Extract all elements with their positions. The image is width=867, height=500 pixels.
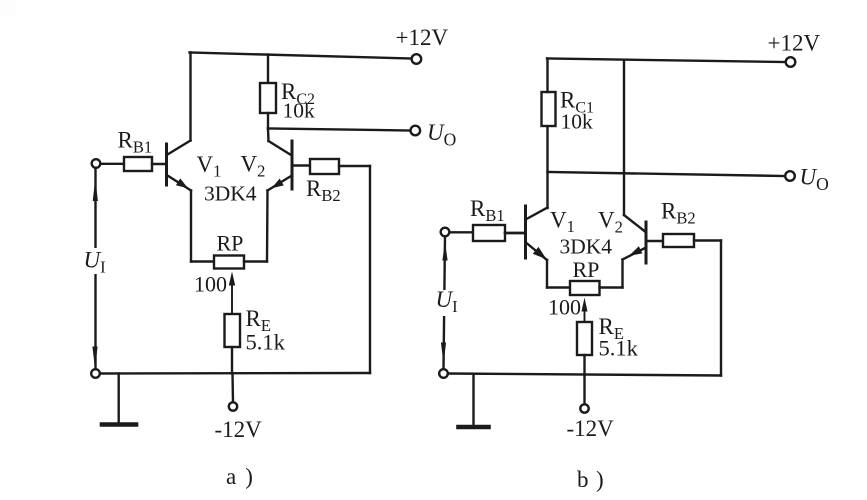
wire output node to V2 collector (a) <box>267 129 270 142</box>
terminal input + (a) <box>92 159 101 168</box>
ground (a) <box>102 422 136 427</box>
svg-text:3DK4: 3DK4 <box>204 181 257 205</box>
transistor V1 (a) <box>167 141 192 191</box>
wire output UO (b) <box>548 172 786 176</box>
svg-text:a ): a ) <box>226 464 253 489</box>
terminal input + (b) <box>441 228 450 237</box>
wire RE to bottom rail (a) <box>231 347 233 374</box>
wire V1 collector to RC1 (b) <box>546 126 548 208</box>
svg-text:3DK4: 3DK4 <box>560 235 613 259</box>
svg-text:RB2: RB2 <box>661 199 696 228</box>
resistor RB2 (a) <box>310 159 339 174</box>
wire V2 emitter down (b) <box>621 260 623 288</box>
wire UI input line (a) <box>94 168 96 369</box>
wire top rail +12V (b) <box>547 59 786 63</box>
wire right side down (b) <box>720 241 722 376</box>
wire input to RB1 (b) <box>450 231 474 233</box>
ground stub (b) <box>472 375 474 425</box>
potentiometer RP (a) <box>214 256 244 269</box>
svg-text:+12V: +12V <box>768 31 821 56</box>
svg-text:V2: V2 <box>241 152 266 181</box>
wire emitter to RP right (b) <box>600 286 623 288</box>
resistor RB1 (a) <box>124 157 152 171</box>
wire V2 emitter down (a) <box>266 191 269 262</box>
svg-text:-12V: -12V <box>567 416 615 441</box>
label UI (a) <box>82 248 110 277</box>
wire emitter to RP left (b) <box>547 286 570 288</box>
wire RB1 to V1 base (a) <box>152 163 166 165</box>
svg-text:UO: UO <box>427 120 456 150</box>
svg-text:RP: RP <box>573 257 600 282</box>
svg-text:RB2: RB2 <box>306 176 341 205</box>
ground (b) <box>459 425 489 430</box>
svg-text:b ): b ) <box>577 467 604 492</box>
terminal +12V (b) <box>786 57 796 67</box>
wire emitter to RP right (a) <box>244 260 267 262</box>
resistor RB2 (b) <box>663 234 694 247</box>
arrow down (a) <box>92 347 97 370</box>
wire bottom rail (a) <box>100 372 370 375</box>
arrow up (a) <box>93 179 98 202</box>
transistor V2 (b) <box>623 215 647 263</box>
transistor V1 (b) <box>526 206 548 260</box>
wire V2 base to RB2 (a) <box>294 164 311 166</box>
svg-text:5.1k: 5.1k <box>246 330 286 355</box>
svg-text:RB1: RB1 <box>118 128 153 157</box>
wire input to RB1 (a) <box>101 163 125 165</box>
resistor RC1 (b) <box>542 92 556 126</box>
svg-text:RB1: RB1 <box>470 196 505 225</box>
wire bottom rail (b) <box>448 374 721 376</box>
terminal -12V (a) <box>229 402 237 410</box>
RP wiper arrow (a) <box>229 272 235 315</box>
wire RE to bottom rail (b) <box>583 355 585 376</box>
svg-text:10k: 10k <box>561 110 594 134</box>
svg-text:V1: V1 <box>197 152 222 181</box>
resistor RE (a) <box>225 314 241 347</box>
wire V1 emitter down (a) <box>190 191 192 262</box>
arrow up (b) <box>442 242 447 261</box>
svg-text:+12V: +12V <box>396 25 449 50</box>
svg-text:10k: 10k <box>283 99 316 123</box>
terminal UO (a) <box>411 126 421 136</box>
wire V1 emitter down (b) <box>546 260 548 288</box>
wire rail to -12V terminal (b) <box>583 376 585 405</box>
svg-text:V2: V2 <box>598 208 623 237</box>
transistor V2 (a) <box>268 141 293 191</box>
wire rail to -12V terminal (a) <box>231 374 234 403</box>
wire V2 collector to top rail (b) <box>623 60 625 215</box>
resistor RC2 (a) <box>260 83 276 113</box>
terminal input - (b) <box>439 369 448 378</box>
terminal -12V (b) <box>580 404 588 412</box>
svg-text:V1: V1 <box>550 208 575 237</box>
wire emitter to RP left (a) <box>191 260 214 262</box>
wire top rail +12V (a) <box>190 53 413 59</box>
terminal +12V (a) <box>412 54 422 64</box>
wire output node to UO terminal (a) <box>268 129 411 131</box>
svg-text:5.1k: 5.1k <box>599 336 639 361</box>
wire RC2 to output node (a) <box>267 113 269 129</box>
wire UI input line (b) <box>444 237 446 370</box>
wire V2 base to RB2 (b) <box>648 240 664 242</box>
wire RB1 to V1 base (b) <box>505 232 525 235</box>
RP wiper arrow (b) <box>582 298 588 323</box>
label UI (b) <box>432 287 458 316</box>
wire V1 collector to top rail (a) <box>189 53 191 141</box>
ground stub (a) <box>117 374 119 424</box>
svg-text:RP: RP <box>217 231 244 256</box>
wire RB2 to right side (b) <box>694 239 721 241</box>
svg-text:100: 100 <box>548 295 581 320</box>
terminal input - (a) <box>91 369 100 378</box>
wire RC1 to top rail (b) <box>546 59 548 93</box>
svg-text:UO: UO <box>800 165 829 195</box>
wire RB2 to right side (a) <box>339 165 370 167</box>
svg-text:100: 100 <box>194 272 227 297</box>
resistor RB1 (b) <box>473 225 505 241</box>
resistor RE (b) <box>577 322 592 355</box>
potentiometer RP (b) <box>570 281 600 295</box>
wire right side down (a) <box>369 166 371 373</box>
arrow down (b) <box>441 343 446 364</box>
terminal UO (b) <box>785 171 795 181</box>
svg-text:-12V: -12V <box>215 417 263 442</box>
wire rail to RC2 (a) <box>267 55 269 84</box>
